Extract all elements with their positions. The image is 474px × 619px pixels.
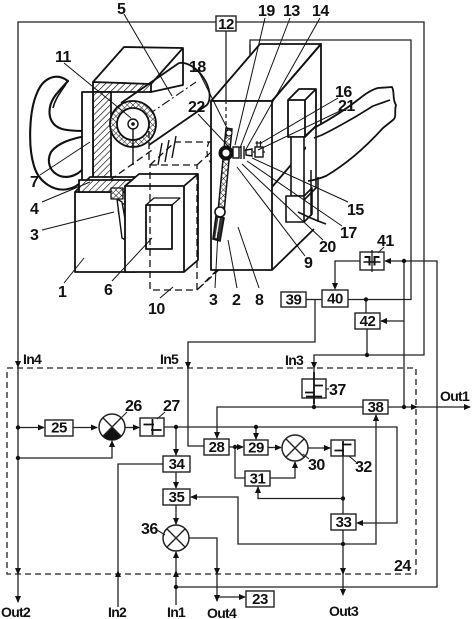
svg-text:27: 27 [163,398,180,415]
svg-text:10: 10 [148,301,165,318]
arrowhead Out2 border [15,568,21,575]
wire 26 to 27 [125,427,139,429]
block 23 [246,591,274,607]
arrowhead In3 border [311,362,317,369]
junction dot 32 output [341,496,345,500]
sensor unit parts 13/14/21 [233,141,265,159]
right box bottom bevel [272,229,314,270]
junction dot 29 tap [254,425,258,429]
block 29 [244,440,268,455]
leader 27 [157,412,165,419]
right main box top face [211,44,321,101]
svg-text:21: 21 [338,98,355,115]
junction dot 33 output [341,542,345,546]
leader 21 [258,111,340,150]
wire 404 vertical: 41 feed junction down to Out1 line [403,261,405,407]
block 42 [355,313,380,329]
svg-text:24: 24 [394,558,411,575]
bracket spine [291,137,304,196]
leader 2 bottom [228,240,237,288]
leader 32 [349,456,356,462]
arrowhead into 32 left [324,445,331,451]
part 5 plate front hatched band [93,82,151,92]
arrowhead into 27 [133,425,140,431]
block 35 [163,489,190,505]
cylinder dash-dot axis [120,82,196,134]
leader 6 [112,238,152,281]
block 37 box [302,379,326,398]
wall left face [82,92,93,184]
svg-text:12: 12 [218,16,234,33]
arrowhead In4 border [15,361,21,368]
svg-text:13: 13 [283,3,300,20]
arrowhead into 30 bottom [292,461,298,468]
wire 28 to 29 [229,446,243,448]
arrowhead into 34 top [173,449,179,456]
wire 30 to 32 [308,447,330,449]
leader 36 [157,530,165,535]
arrowhead into 26 bottom [109,440,115,447]
junction dot 40 output [364,297,368,301]
arrowhead into 42 right [380,318,387,324]
leader 3 left [42,212,114,230]
wire 42 right input [381,320,404,322]
svg-text:29: 29 [248,440,264,457]
svg-text:22: 22 [188,99,205,116]
wire Out4 branch to 23 [217,596,245,598]
wire 28-29 junction down to 31 left [235,447,245,478]
bracket foot [286,196,304,222]
leader 13 [240,18,290,148]
leader 9 [237,167,305,256]
svg-text:20: 20 [319,239,336,256]
wire 35 to 36 [175,505,177,524]
summing circle 26 [99,414,125,440]
leader 5 [124,14,172,96]
svg-text:5: 5 [117,1,126,18]
svg-text:19: 19 [258,3,275,20]
junction dot In4 lower [16,456,20,460]
junction dot 42 bottom [365,353,369,357]
svg-text:3: 3 [30,227,39,244]
wire box12 drop line [225,31,227,100]
svg-text:3: 3 [209,292,218,309]
svg-text:17: 17 [340,225,357,242]
svg-text:Out2: Out2 [1,604,31,619]
svg-text:In4: In4 [23,351,42,367]
wire 37 output to 38 left [314,406,363,408]
block 41 box [360,252,384,270]
arrowhead into 40 top [332,283,338,290]
arrowhead into 33 right [356,520,363,526]
leader 10 [160,287,173,298]
arrowhead into 28 top [214,432,220,439]
arrowhead In1 border [173,570,179,577]
wire inner loop: 40 output up and over into mechanism [250,40,411,300]
svg-text:In3: In3 [285,352,304,368]
svg-text:In2: In2 [108,604,127,619]
block 34 [163,456,190,472]
wire 34 to 35 [175,472,177,488]
relay symbol inside 37 with axis [305,372,323,404]
DRAWING-START [30,47,209,272]
part 6 U-plate with window [125,174,198,272]
part 2 rack strip [213,128,232,241]
svg-text:25: 25 [51,420,67,437]
svg-text:1: 1 [58,284,67,301]
arrowhead into 23 [239,594,246,600]
svg-text:38: 38 [368,399,384,416]
svg-text:Out3: Out3 [329,603,359,619]
svg-text:23: 23 [252,591,268,608]
leader 37 [326,388,329,390]
block 32 box [331,440,355,456]
arrowhead Out3 tip [340,589,346,596]
part 19 pivot ring [221,148,232,159]
svg-text:30: 30 [308,457,325,474]
wire In4 lower tap to 26 bottom [18,442,112,458]
part 16 prism on bracket [288,89,316,137]
arrowhead Out2 tip [15,596,21,603]
leader 1 [64,258,84,283]
leader 18 [200,74,228,130]
svg-text:Out1: Out1 [440,388,470,404]
wire inner loop end overlay on box slant [249,44,251,56]
block 28 [204,439,229,455]
svg-text:In1: In1 [167,604,186,619]
arrowhead Out1 tip [464,404,471,410]
leader 11 [64,63,131,118]
svg-text:31: 31 [250,471,266,488]
wire 29 to 30 [268,447,281,449]
junction dot In4/25 [16,425,20,429]
svg-text:2: 2 [232,292,241,309]
svg-text:26: 26 [125,398,142,415]
leader 16 [261,98,338,143]
wire 42 bottom to outer loop [366,329,368,355]
strip tail [213,216,224,241]
arrowhead into 30 left [275,445,282,451]
part 10 dashed housing [110,120,222,290]
junction dot 27 output / 34 tap [174,425,178,429]
rope strands [158,136,176,165]
drum hub [128,119,138,129]
part 5 bracket top plate (isometric) [93,47,183,92]
wire 37 output to 28 top [217,407,314,438]
multiplier circle 30 [282,435,308,461]
dashed border of unit 24 [7,368,416,574]
arrowhead into 35 right [190,494,197,500]
drum stem [132,129,134,165]
wire 33 junction left and up to 35 right input [191,497,343,544]
leader 26 [119,412,127,420]
svg-text:14: 14 [312,3,329,20]
part 3 linkage circle [119,204,134,219]
wire 32 junction left to 31 bottom [258,487,343,499]
relay symbol inside 32 with axis [335,441,352,456]
arrowhead Out4 tip [214,595,220,602]
svg-text:40: 40 [327,291,343,308]
part 3 link bar [117,199,132,241]
wire 36 output to Out4 [189,538,217,601]
wire 40 junction down to 42 top [365,300,367,314]
wire In5 tap from 39-40 line down to 28 [188,300,315,447]
arrowhead into 36 top [173,518,179,525]
right main box right face [272,44,321,187]
svg-text:36: 36 [141,521,158,538]
svg-text:6: 6 [104,282,113,299]
leader 22 [198,114,229,147]
leader 20 [242,164,323,240]
multiplier circle 36 [163,525,189,551]
svg-text:11: 11 [55,49,72,66]
arrowhead into 35 top [173,482,179,489]
part 18 drum face ring crosshatched [110,101,156,147]
svg-text:37: 37 [329,382,346,399]
leader 19 [235,18,265,145]
part 15 claw arm [306,87,396,181]
block 12 box [216,16,236,31]
part 1 lower box [75,177,151,272]
wire 39 to 40 [306,299,322,301]
block 38 [363,400,388,414]
wire 41 to 40 [335,261,360,288]
claw arm crease [314,100,390,138]
svg-text:41: 41 [377,233,394,250]
junction dot 41 feed [402,259,406,263]
wire box12 drop overlay across box faces [225,84,227,100]
strip top pin [226,130,232,136]
junction dot Out1 line [402,405,406,409]
svg-text:33: 33 [336,514,352,531]
backlash symbol inside 41 [371,250,373,272]
arrowhead into 29 top [253,433,259,440]
LABELS-START [40,14,348,298]
part 3 linkage block hatched [111,188,123,199]
wire 33 output down to Out3 [342,530,344,592]
wire 33 junction right and up to 38 bottom [343,415,376,544]
arrowhead In5 border [185,362,191,369]
svg-text:39: 39 [286,292,302,309]
leader 3 bottom [215,232,218,288]
arrowhead Out1 border [411,404,418,410]
wire 32 output down through junction to 33 top [342,456,344,514]
leader 41 [378,247,384,253]
arrowhead into 25 [38,425,45,431]
right main box front face [211,101,272,270]
leader 30 [303,454,309,459]
arrowhead into 38 bottom [373,414,379,421]
block 31 [245,471,270,486]
wire tap down to 29 top [255,427,257,439]
leader 8 bottom [238,227,259,288]
arrowhead Out3 border [340,568,346,575]
svg-text:Out4: Out4 [207,605,237,619]
wire 25 to 26 [73,427,97,429]
junction dot 37 output [312,405,316,409]
block 40 [322,290,348,307]
svg-text:35: 35 [169,489,185,506]
arrowhead into 26 left [91,425,98,431]
wire 27 output long run to 33 right input [164,427,397,523]
junction dot In1 branch [174,585,178,589]
junction dot 28-29 [233,445,237,449]
wire In1 riser to 41 input [176,261,437,587]
wire tap down to 34 top [175,427,177,455]
wire In4 to 25 [18,427,44,429]
arrowhead into 29 left [237,444,244,450]
wire In2 riser to 34 left [118,464,163,607]
svg-text:7: 7 [30,174,39,191]
arrowhead into 36 bottom [173,551,179,558]
block 33 [331,514,356,530]
wire In1 riser to 36 bottom [175,552,177,605]
svg-text:18: 18 [189,59,206,76]
leader 14 [245,18,320,151]
svg-text:9: 9 [304,255,313,272]
relay symbol inside 27 [144,419,162,435]
svg-text:34: 34 [169,456,186,473]
block 27 box [140,418,164,436]
svg-text:In5: In5 [160,351,179,367]
svg-text:28: 28 [209,439,225,456]
wire 31 output to 30 bottom [270,462,295,478]
svg-text:4: 4 [30,201,39,218]
svg-text:42: 42 [360,313,376,330]
leader 15 [252,158,348,202]
dashed circle around sensor unit [207,130,249,172]
svg-text:15: 15 [347,202,364,219]
arrowhead into 31 bottom [255,486,261,493]
wire 38 output to Out1 [388,406,470,408]
block 39 [281,292,306,307]
leader 7 [40,142,90,175]
svg-text:8: 8 [255,292,264,309]
block 25 [45,420,73,436]
part 4 hatched ledge [79,180,140,192]
arrowhead Out4 border [214,568,220,575]
svg-text:32: 32 [355,459,372,476]
leader 17 [247,161,342,226]
part 3 lower pivot [215,207,225,217]
part 7 hook (left crane hook) [30,77,86,190]
part 18 cylinder body [121,63,210,145]
arrowhead into 41 right [384,258,391,264]
leader 4 [42,182,90,202]
arrowhead In2 border [115,570,121,577]
part 11 wall column hatched [93,92,111,178]
BLOCKS-START [45,16,388,607]
